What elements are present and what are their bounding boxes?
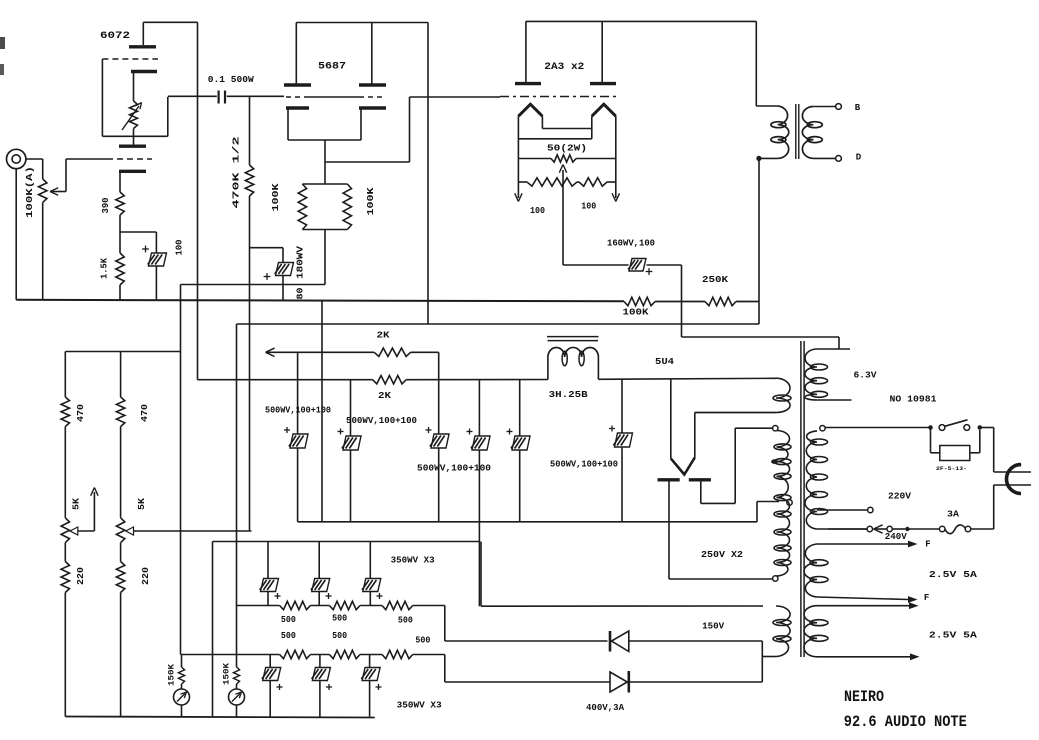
svg-text:220: 220 (76, 567, 86, 585)
svg-text:0.1 500W: 0.1 500W (208, 75, 255, 85)
svg-text:100K(A): 100K(A) (25, 166, 35, 218)
svg-text:F: F (924, 593, 929, 603)
svg-text:250V X2: 250V X2 (701, 550, 743, 560)
svg-text:3A: 3A (947, 510, 960, 520)
svg-text:500: 500 (332, 614, 347, 624)
svg-text:250K: 250K (702, 275, 729, 285)
svg-text:350WV X3: 350WV X3 (397, 701, 442, 711)
svg-text:240V: 240V (885, 532, 908, 542)
svg-text:500: 500 (281, 615, 296, 625)
svg-text:180WV: 180WV (296, 245, 306, 279)
svg-text:5687: 5687 (318, 62, 346, 73)
svg-text:5K: 5K (72, 497, 82, 510)
svg-text:5U4: 5U4 (655, 357, 675, 367)
svg-text:470K 1/2: 470K 1/2 (231, 136, 241, 208)
svg-text:6072: 6072 (100, 31, 130, 42)
svg-text:400V,3A: 400V,3A (586, 703, 625, 713)
svg-text:2K: 2K (378, 391, 392, 401)
svg-text:100: 100 (530, 206, 545, 216)
svg-text:100: 100 (175, 240, 185, 256)
svg-text:500WV,100+100: 500WV,100+100 (265, 406, 331, 416)
svg-text:F: F (925, 540, 930, 550)
svg-text:3H.25B: 3H.25B (549, 390, 589, 400)
svg-text:NEIRO: NEIRO (844, 688, 884, 706)
svg-text:D: D (856, 153, 862, 163)
svg-text:500WV,100+100: 500WV,100+100 (550, 460, 618, 470)
svg-text:100K: 100K (623, 308, 650, 318)
svg-text:160WV,100: 160WV,100 (607, 239, 655, 249)
svg-text:500: 500 (332, 631, 347, 641)
svg-text:220: 220 (141, 567, 151, 585)
svg-text:2K: 2K (377, 331, 391, 341)
svg-text:350WV X3: 350WV X3 (391, 555, 435, 565)
svg-text:500WV,100+100: 500WV,100+100 (346, 416, 417, 426)
svg-text:150V: 150V (702, 622, 725, 632)
svg-text:92.6 AUDIO NOTE: 92.6 AUDIO NOTE (844, 713, 967, 731)
svg-text:6.3V: 6.3V (854, 371, 878, 381)
svg-text:5K: 5K (137, 497, 147, 510)
svg-text:100K: 100K (366, 187, 376, 216)
svg-text:50(2W): 50(2W) (547, 144, 587, 154)
svg-text:500: 500 (281, 631, 296, 641)
svg-text:500: 500 (398, 616, 413, 626)
svg-text:1.5K: 1.5K (100, 257, 110, 279)
svg-text:B: B (855, 103, 861, 113)
svg-text:NO 10981: NO 10981 (890, 395, 938, 405)
svg-text:2.5V 5A: 2.5V 5A (929, 630, 977, 641)
svg-text:2A3 x2: 2A3 x2 (544, 62, 584, 73)
svg-text:100K: 100K (271, 183, 281, 212)
svg-text:500WV,100+100: 500WV,100+100 (417, 464, 491, 474)
svg-text:220V: 220V (888, 492, 912, 502)
svg-text:150K: 150K (167, 663, 177, 686)
svg-text:150K: 150K (222, 662, 232, 685)
svg-text:470: 470 (76, 404, 86, 422)
svg-text:80: 80 (296, 288, 306, 300)
svg-text:500: 500 (415, 636, 430, 646)
svg-text:2.5V 5A: 2.5V 5A (929, 569, 977, 580)
svg-text:2F-5-13-: 2F-5-13- (936, 465, 967, 472)
svg-text:390: 390 (101, 198, 111, 214)
svg-text:470: 470 (140, 404, 150, 422)
svg-text:100: 100 (581, 202, 596, 212)
